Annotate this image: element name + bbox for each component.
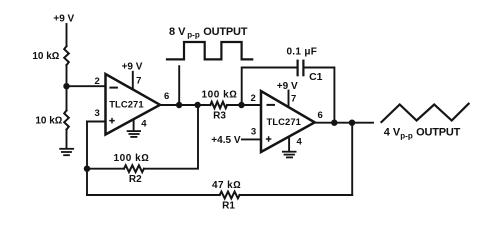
- wire +9V to first 10k resistor: [66, 24, 68, 46]
- wire C1 left branch up: [242, 68, 297, 106]
- node R2 feedback junction on U1 output: [194, 102, 200, 108]
- svg-text:4: 4: [141, 118, 147, 129]
- svg-text:TLC271: TLC271: [109, 99, 143, 110]
- svg-text:6: 6: [318, 110, 323, 121]
- wire R1 branch down: [351, 123, 353, 195]
- svg-text:R3: R3: [213, 111, 226, 122]
- wire R3 to U2 pin 2: [227, 104, 261, 106]
- wire U2 pin 3 input: [242, 138, 261, 140]
- wire tap up to square wave symbol: [178, 66, 180, 105]
- ground (U2 pin 4): [283, 137, 296, 157]
- label 8 Vp-p OUTPUT: [169, 26, 248, 40]
- svg-text:R1: R1: [222, 201, 235, 212]
- svg-text:4: 4: [297, 137, 303, 148]
- svg-text:R2: R2: [129, 174, 142, 185]
- capacitor C1 0.1uF: [286, 46, 322, 83]
- ground (U1 pin 4): [128, 120, 141, 137]
- wire first resistor to node A: [66, 65, 68, 86]
- svg-text:OUTPUT: OUTPUT: [416, 127, 461, 139]
- node square-wave tap junction: [176, 102, 182, 108]
- svg-text:10 kΩ: 10 kΩ: [32, 51, 59, 62]
- node C1 feedback junction: [238, 102, 244, 108]
- resistor 10k lower (divider): [35, 110, 68, 129]
- wire U2 pin 7: [288, 91, 290, 107]
- resistor R3 100k: [201, 90, 237, 122]
- triangle wave symbol 4Vp-p: [382, 104, 469, 122]
- svg-text:+9 V: +9 V: [53, 13, 74, 24]
- resistor 10k upper (divider): [32, 46, 68, 65]
- svg-text:p-p: p-p: [400, 131, 413, 140]
- svg-text:2: 2: [251, 93, 256, 104]
- svg-text:7: 7: [291, 93, 296, 104]
- svg-text:2: 2: [95, 76, 100, 87]
- ground (divider): [60, 149, 73, 155]
- wire C1 right branch down to U2 output: [304, 68, 334, 123]
- wire U2 output rail: [315, 122, 373, 124]
- svg-text:3: 3: [251, 126, 256, 137]
- wire U1 pin 7: [132, 72, 134, 88]
- square wave symbol 8Vp-p: [167, 42, 252, 59]
- svg-text:+9 V: +9 V: [277, 81, 298, 92]
- wire node A down to second 10k resistor: [66, 86, 68, 110]
- wire node A to op-amp U1 pin 2: [67, 85, 106, 87]
- wire R2 left segment: [87, 168, 124, 170]
- svg-text:100 kΩ: 100 kΩ: [201, 90, 237, 101]
- svg-text:+9 V: +9 V: [122, 61, 143, 72]
- wire second resistor to ground: [66, 130, 68, 149]
- label 4 Vp-p OUTPUT: [384, 127, 461, 141]
- svg-text:TLC271: TLC271: [267, 116, 301, 127]
- wire R2 right segment up to U1 output: [144, 105, 198, 169]
- svg-text:3: 3: [95, 108, 100, 119]
- svg-text:100 kΩ: 100 kΩ: [113, 153, 149, 164]
- wire U1 pin 3 input: [87, 121, 106, 123]
- svg-text:7: 7: [136, 76, 141, 87]
- wire U1 output to R3: [160, 104, 210, 106]
- node C1 junction on U2 output: [331, 120, 337, 126]
- svg-text:47 kΩ: 47 kΩ: [212, 180, 241, 191]
- svg-text:0.1 μF: 0.1 μF: [286, 46, 317, 57]
- svg-text:+4.5 V: +4.5 V: [211, 135, 241, 146]
- svg-text:6: 6: [164, 91, 169, 102]
- svg-text:10 kΩ: 10 kΩ: [35, 115, 62, 126]
- node R1 feedback junction on U2 output: [349, 120, 355, 126]
- svg-text:OUTPUT: OUTPUT: [203, 26, 248, 38]
- svg-text:p-p: p-p: [187, 30, 200, 39]
- op-amp U1 TLC271 triangle: [106, 74, 161, 135]
- svg-text:8 V: 8 V: [169, 26, 186, 38]
- resistor R1 47k: [212, 180, 241, 211]
- op-amp U2 TLC271 triangle: [261, 91, 315, 152]
- wire bottom rail left segment: [87, 194, 220, 196]
- resistor R2 100k: [113, 153, 149, 185]
- wire bottom rail right segment: [240, 194, 353, 196]
- svg-text:4 V: 4 V: [384, 127, 401, 139]
- wire U1 pin3 feedback vertical: [86, 122, 88, 196]
- svg-text:C1: C1: [309, 71, 323, 83]
- node A junction (divider midpoint): [63, 83, 69, 89]
- node R2/R1 junction: [84, 166, 90, 172]
